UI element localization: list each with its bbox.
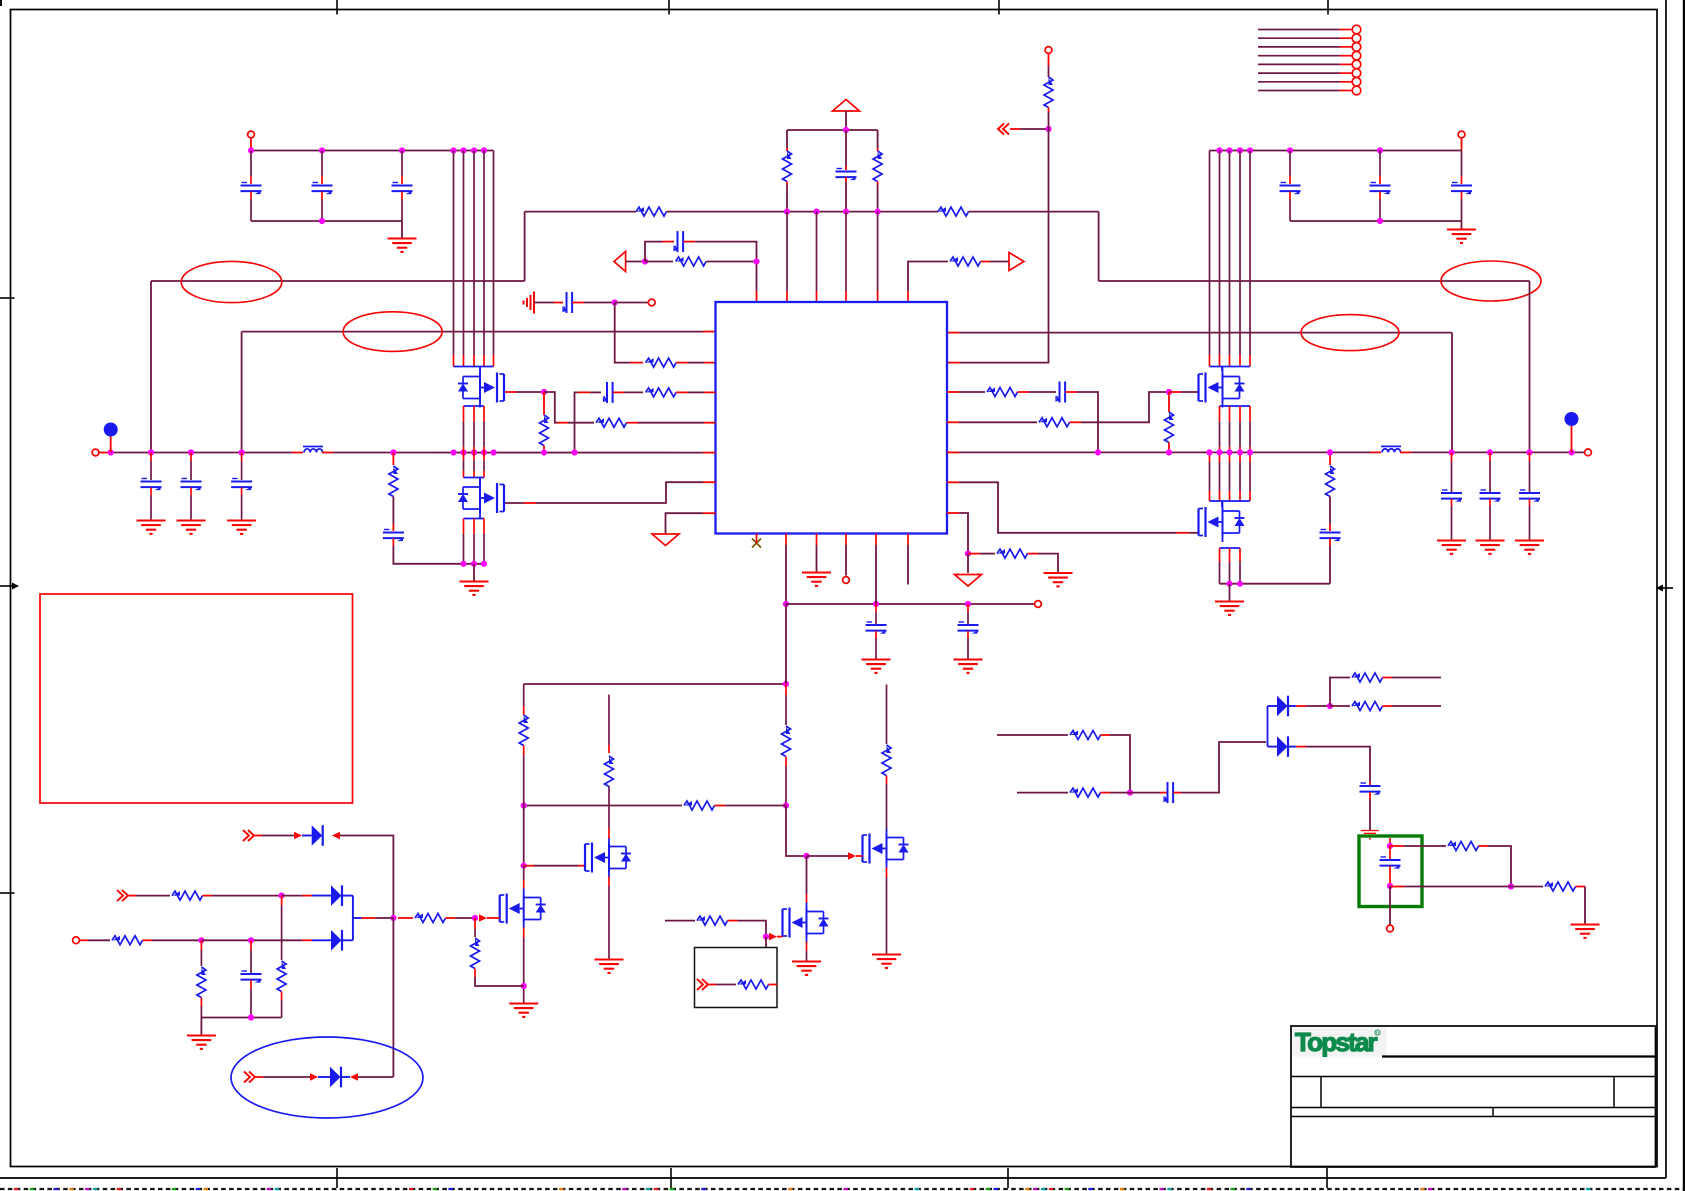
ground C17 (1437, 541, 1466, 554)
power symbol VNEG2 (955, 575, 982, 587)
wire R7 bot red (1048, 108, 1050, 113)
wire IN4 a (262, 835, 294, 837)
resistor R22 (697, 916, 728, 925)
page left edge mark (0, 0, 2, 6)
node N9 (521, 983, 527, 989)
title block row line 2 (1291, 1107, 1656, 1109)
port chevron IN3 (697, 979, 708, 990)
wire C7 red top (845, 166, 847, 170)
diode D2 (331, 885, 342, 906)
wire R25 b (152, 939, 201, 941)
ground C21 (954, 660, 983, 673)
capacitor C20 (866, 622, 887, 634)
wire GND4 stub (1229, 584, 1231, 601)
node rR2 (1166, 449, 1172, 455)
left border tick 2 (0, 892, 15, 894)
connector J1 pin 1 circle (1352, 25, 1361, 34)
wire row422L a (568, 422, 594, 424)
wire D2 lead in (312, 895, 331, 897)
node row211-d (875, 209, 881, 215)
wire gate bus left line 4 (483, 151, 485, 356)
wire D3 lead in (312, 939, 331, 941)
resistor R8 (646, 388, 677, 397)
wire lower-right drain bus line (1249, 452, 1251, 462)
node rL3 (188, 449, 194, 455)
wire row482R (959, 482, 1176, 533)
resistor R11 (987, 388, 1018, 397)
wire D6 lead in (1268, 746, 1278, 748)
wire R1 red top (786, 148, 788, 151)
ground C20 (862, 660, 891, 673)
wire pin908 top red (907, 291, 909, 302)
wire pin908 riser (908, 262, 948, 292)
wire ellipse rail R2 (959, 332, 1452, 334)
node rR8 (1327, 449, 1333, 455)
wire R10 top red (543, 392, 545, 415)
resistor R28 (197, 967, 206, 998)
node row211-c (843, 209, 849, 215)
wire L2 lead in (1370, 451, 1381, 453)
ground GND10 (792, 962, 821, 975)
node rail-bus2 (460, 147, 466, 153)
wire N14 to D3 (201, 939, 302, 941)
node rL10 (490, 449, 496, 455)
node rR7 (1247, 449, 1253, 455)
resistor R12 (1039, 418, 1070, 427)
resistor R30 (1070, 731, 1101, 740)
node N5 (965, 551, 971, 557)
wire R19 bot red (523, 746, 525, 756)
wire C23 corner (1181, 742, 1266, 793)
wire P2 stub (1461, 138, 1463, 151)
node rail604-a (783, 601, 789, 607)
connector J1 pin 8 wire (1258, 90, 1340, 92)
wire R2 to row211 (877, 185, 879, 212)
wire R10 bot red (543, 446, 545, 453)
node rail-C3 (399, 147, 405, 153)
wire row422R a (959, 421, 1037, 423)
wire R34 red (1479, 845, 1489, 847)
left border centering arrow (0, 583, 19, 590)
node VDD (843, 127, 849, 133)
connector J1 pin 2 wire (1258, 37, 1340, 39)
wire N23 res (1511, 886, 1543, 888)
wire IN4 red (254, 835, 262, 837)
wire C25 top red (1389, 838, 1391, 846)
capacitor C13 bottom lead (190, 488, 192, 496)
wire IN5 a (136, 895, 170, 897)
node N1 (642, 258, 648, 264)
node N7 (521, 802, 527, 808)
capacitor C12 bottom lead (150, 488, 152, 496)
node rR3 (1206, 449, 1212, 455)
resistor R4 (938, 207, 969, 216)
wire lower-left source bus line (463, 519, 465, 534)
wire Q7 source (886, 868, 888, 878)
wire comb drain upper-right (1210, 366, 1251, 368)
node rR11 (1526, 449, 1532, 455)
pin arrow A4 (332, 832, 340, 840)
wire P4 stub (1048, 54, 1050, 66)
wire row392L b (624, 391, 643, 393)
terminal P8 (843, 577, 850, 584)
title block row line 1 (1291, 1076, 1656, 1078)
wire ground stub GND2 (1461, 221, 1463, 229)
wire R27 top red (281, 896, 283, 905)
node trail-1380 (1377, 147, 1383, 153)
wire N8 gate wire b (534, 865, 578, 867)
wire main rail left b (333, 452, 703, 454)
wire C25 bot (1389, 866, 1391, 886)
node G1L (541, 389, 547, 395)
capacitor C9 (563, 292, 572, 313)
wire R18 red (715, 805, 726, 807)
capacitor C4 (1280, 183, 1301, 195)
capacitor C16 (1320, 530, 1341, 542)
wire row513L pin red (703, 512, 716, 514)
wire row362L red1 (630, 362, 643, 364)
capacitor C1 bottom lead (250, 192, 252, 200)
capacitor C3 (392, 183, 413, 195)
wire R32 out (1392, 677, 1441, 679)
inductor L2 (1381, 446, 1401, 452)
wire N22 row red (1390, 886, 1404, 888)
capacitor C6 bottom lead (1461, 192, 1463, 200)
ground GND11 (187, 1036, 216, 1049)
capacitor C15 (383, 530, 404, 542)
wire N3 drop (615, 303, 630, 363)
wire comb source lower-right (1220, 547, 1241, 549)
wire C7 to row211 (845, 182, 847, 212)
svg-text:Topstar: Topstar (1295, 1027, 1377, 1057)
diode D4 (330, 1067, 341, 1088)
wire C7 red bot (845, 177, 847, 182)
node rL2 (148, 449, 154, 455)
wire TP1 stub (110, 437, 112, 453)
resistor R13 (1165, 412, 1174, 443)
wire row392L pin red (704, 391, 716, 393)
wire R22 red (728, 920, 739, 922)
node N6 (783, 802, 789, 808)
node N14 (198, 937, 204, 943)
wire IC top pin x=877.6 (877, 212, 879, 291)
resistor R24 (172, 891, 203, 900)
ground GND5 (802, 573, 831, 586)
wire top-right cap return rail (1290, 220, 1462, 222)
wire row805 (524, 805, 682, 807)
wire D5 out red (1296, 705, 1306, 707)
transistor Q7 (863, 829, 909, 869)
wire row392R a (959, 391, 985, 393)
wire row392L c (688, 391, 704, 393)
terminal P3 (648, 299, 655, 306)
wire Q7 drain chain (886, 685, 888, 745)
ground C14 (227, 521, 256, 534)
wire R27 bot red (281, 992, 283, 1001)
wire row513R pin red (947, 512, 959, 514)
node trail-1229.5 (1226, 147, 1232, 153)
wire C8 to corner (695, 242, 757, 291)
testpoint TP2 (1565, 412, 1579, 426)
capacitor C23 (1164, 782, 1173, 803)
wire R14 top red (392, 453, 394, 466)
wire VDD stem (845, 111, 847, 130)
wire row211 drop left (524, 212, 526, 281)
resistor R5 (676, 257, 707, 266)
node rL7 (460, 449, 466, 455)
wire gate bus left line 3 (473, 151, 475, 356)
wire row422L b (638, 422, 704, 424)
wire N5 stub (967, 554, 969, 573)
port arrow IN1 (614, 252, 626, 272)
wire A7 red (487, 917, 500, 919)
diode D1 (312, 825, 323, 846)
transistor Q4 (1199, 502, 1245, 542)
wire ellipse rail L2 (242, 331, 703, 333)
wire N1 riser (645, 242, 662, 262)
wire R17 top red (785, 684, 787, 695)
node rail-C1 (248, 147, 254, 153)
wire lower-right source bus line (1239, 548, 1241, 562)
pin arrow A9 (350, 1073, 358, 1081)
pin arrow A3 (294, 832, 302, 840)
wire D2 red (302, 895, 312, 897)
connector J1 pin 4 circle (1352, 51, 1361, 60)
wire lower-right drain bus line (1219, 452, 1221, 462)
connector J1 pin 7 circle (1352, 78, 1361, 87)
capacitor C11 (1056, 382, 1065, 403)
sheet outer border bottom edge (0, 1177, 1666, 1179)
top border tick 1 (336, 0, 338, 15)
annotation box B1 (695, 948, 778, 1008)
wire IN1 to node (626, 261, 645, 263)
node return-C2 (319, 218, 325, 224)
wire Q6 drain (523, 866, 525, 880)
node trail-1240 (1237, 147, 1243, 153)
resistor R15 (1326, 466, 1335, 497)
wire N7 drop (523, 806, 525, 866)
wire N13 to D2 (282, 895, 302, 897)
transistor Q1 (458, 368, 504, 408)
ground GND9 (872, 955, 901, 968)
wire rail684 (524, 683, 786, 685)
capacitor C2 bottom lead (321, 192, 323, 200)
wire gate bus right line 1 (1209, 151, 1211, 356)
node rL11 (541, 449, 547, 455)
wire R7 to N4 (1048, 112, 1050, 129)
wire R32 red (1383, 677, 1393, 679)
wire row392L red2 (613, 391, 624, 393)
wire pin816 red (816, 534, 818, 546)
node rail-bus4 (481, 147, 487, 153)
wire gate bus right line 5 (1249, 151, 1251, 356)
wire comb drain lower-right (1210, 500, 1251, 502)
connector J1 pin 5 wire (1258, 63, 1340, 65)
capacitor C22 (241, 971, 262, 983)
testpoint TP1 (104, 423, 118, 437)
wire C25 lead (1389, 846, 1391, 859)
node N3 (612, 299, 618, 305)
wire rowB b (1110, 792, 1130, 794)
ground GND3 (460, 582, 489, 595)
diode D3 (331, 930, 342, 951)
left border tick 1 (0, 297, 15, 299)
wire row422L red2 (627, 422, 639, 424)
wire N1 res red (645, 261, 673, 263)
resistor R29 (471, 938, 480, 969)
wire R7 top (1048, 66, 1050, 77)
ground GND1 (388, 239, 417, 252)
connector J1 pin 8 circle (1352, 86, 1361, 95)
wire lower-right source bus line (1219, 548, 1221, 562)
wire N3 to P3 (615, 302, 648, 304)
node N13 (279, 893, 285, 899)
wire C24 red2 (1369, 792, 1371, 799)
wire gate bus right line 2 (1219, 151, 1221, 356)
resistor R9 (596, 418, 627, 427)
wire R33 out (1392, 705, 1441, 707)
wire D6 out red (1296, 746, 1306, 748)
capacitor C10 (604, 382, 613, 403)
wire Q6 source (523, 928, 525, 939)
title block title underline (1382, 1055, 1655, 1057)
wire pin876 red (875, 534, 877, 546)
wire A2 red (777, 936, 783, 938)
node N4 (1045, 126, 1051, 132)
title block outer box (1291, 1026, 1656, 1167)
port chevron IN4 (243, 830, 254, 841)
wire C8 left red (662, 241, 674, 243)
capacitor C18 bottom lead (1489, 499, 1491, 506)
bottom colored dashed strip (0, 1188, 1685, 1190)
wire R31 red (1101, 792, 1111, 794)
wire row482R c (1189, 532, 1199, 534)
resistor R33 (1352, 702, 1383, 711)
resistor R19 (519, 715, 528, 746)
transistor Q8 (783, 903, 829, 943)
node rail684-a (783, 681, 789, 687)
wire Q5 drain chain (608, 828, 610, 839)
wire D3 red (302, 939, 312, 941)
node rR9 (1448, 449, 1454, 455)
wire C23 red1 (1160, 792, 1167, 794)
wire L1 lead out (322, 452, 333, 454)
wire D2 lead out (343, 895, 353, 897)
wire R36 to OUT1 (990, 261, 1009, 263)
wire R21 bot lead (886, 776, 888, 785)
wire R30 red (1101, 734, 1111, 736)
capacitor C12 top lead (150, 453, 152, 462)
wire gate1L stub red (504, 391, 516, 393)
capacitor C25 (1380, 857, 1401, 869)
wire E3 riser (241, 332, 243, 453)
wire D1 lead in (302, 835, 312, 837)
capacitor C19 (1519, 490, 1540, 502)
wire row211 right (969, 211, 1099, 213)
wire R1 top lead (786, 130, 788, 148)
wire IN3 a (716, 984, 736, 986)
wire R2 red top (877, 148, 879, 151)
wire R25 red (143, 939, 153, 941)
bottom border tick 1 (336, 1168, 338, 1188)
capacitor C14 top lead (241, 453, 243, 462)
wire row392R red2 (1018, 391, 1030, 393)
resistor R27 (277, 961, 286, 992)
wire A1 red (856, 855, 863, 857)
wire R1 to row211 (786, 185, 788, 212)
resistor R20 (605, 756, 614, 787)
transistor Q6 (500, 889, 546, 929)
wire BL1 out red (361, 917, 375, 919)
wire row211 mid (667, 211, 939, 213)
capacitor C4 bottom lead (1289, 192, 1291, 200)
node rail-C2 (319, 147, 325, 153)
port arrow OUT1 (1009, 253, 1024, 271)
wire R35 corner (1584, 887, 1586, 925)
ground GND12 (1361, 831, 1379, 839)
terminal P7 (1035, 601, 1042, 608)
node rL12 (571, 449, 577, 455)
node rR12 (1568, 449, 1574, 455)
wire main rail right a (959, 451, 1370, 453)
wire row422L pin red (704, 422, 716, 424)
wire pin757 red (756, 534, 758, 544)
node bl2 (471, 561, 477, 567)
wire N12 res red (398, 917, 413, 919)
pin arrow A2 (769, 933, 777, 941)
node rail604-c (965, 601, 971, 607)
wire gate bus right line 4 (1239, 151, 1241, 356)
wire row392R red3 (1065, 391, 1077, 393)
ground GND8 (509, 1004, 538, 1017)
wire D4 lead out (342, 1076, 351, 1078)
wire IN3 red (708, 984, 716, 986)
wire N5 a (980, 553, 995, 555)
wire R2 top lead (877, 130, 879, 148)
wire R26 red (446, 917, 456, 919)
wire IN6 a (263, 1076, 310, 1078)
Topstar logo registered mark (1375, 1030, 1380, 1035)
capacitor C19 top lead (1529, 452, 1531, 461)
wire E1 drop to main rail (150, 281, 152, 453)
wire comb source lower-left (464, 518, 485, 520)
wire N11 to box (765, 937, 767, 948)
capacitor C13 (181, 479, 202, 491)
bottom border tick 3 (1007, 1168, 1009, 1188)
capacitor C21 top lead (967, 604, 969, 612)
wire lower-right drain bus line (1229, 452, 1231, 462)
wire C24 drop (1369, 799, 1371, 830)
node rR10 (1487, 449, 1493, 455)
pin arrow A7 (479, 914, 487, 922)
node N18 (248, 1014, 254, 1020)
wire D5 lead out (1289, 705, 1297, 707)
IC U1 (716, 302, 948, 534)
diode D5 (1277, 696, 1288, 717)
wire row482L pin red (703, 481, 716, 483)
wire rowB a (1017, 792, 1068, 794)
wire ellipse rail L1 (151, 280, 525, 282)
node rR4 (1216, 449, 1222, 455)
resistor R35 (1545, 882, 1576, 891)
wire lower-left drain bus line (483, 453, 485, 461)
diode D6 (1277, 736, 1288, 757)
node N12 (390, 915, 396, 921)
wire IC top pin x=787 (786, 212, 788, 291)
wire lower-right drain bus line (1239, 452, 1241, 462)
resistor R14 (389, 466, 398, 497)
wire row482R red2 (1176, 532, 1189, 534)
